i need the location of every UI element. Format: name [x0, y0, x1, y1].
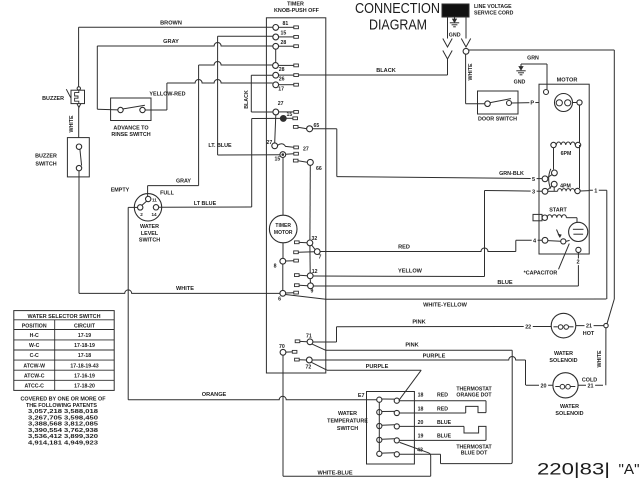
wire PURPLE (timer 72 to COLD solenoid 20) — [312, 354, 525, 386]
svg-text:THERMOSTAT: THERMOSTAT — [456, 444, 492, 450]
svg-text:19: 19 — [418, 433, 424, 439]
svg-text:22: 22 — [525, 325, 531, 331]
svg-text:28: 28 — [279, 67, 285, 73]
svg-text:RINSE SWITCH: RINSE SWITCH — [111, 132, 150, 138]
svg-text:17-16-19: 17-16-19 — [74, 373, 95, 379]
svg-text:LT. BLUE: LT. BLUE — [208, 143, 232, 149]
svg-text:BLACK: BLACK — [244, 90, 250, 109]
svg-text:17-18: 17-18 — [78, 353, 91, 359]
svg-text:SWITCH: SWITCH — [139, 238, 160, 244]
svg-text:BLUE: BLUE — [497, 280, 512, 286]
svg-text:6PM: 6PM — [561, 151, 572, 157]
svg-text:LINE VOLTAGE: LINE VOLTAGE — [474, 4, 512, 10]
svg-text:P: P — [530, 101, 534, 107]
svg-text:SOLENOID: SOLENOID — [555, 411, 583, 417]
wire 18 RED (thermostat to pole2) — [399, 406, 486, 413]
water solenoid HOT — [549, 313, 603, 363]
svg-text:CIRCUIT: CIRCUIT — [74, 323, 96, 329]
wire ORANGE (water level 2 to temp switch E7) — [128, 207, 376, 399]
svg-text:2: 2 — [577, 260, 580, 266]
svg-text:C-C: C-C — [30, 353, 39, 359]
svg-text:21: 21 — [586, 324, 592, 330]
svg-text:3,388,568 3,812,085: 3,388,568 3,812,085 — [28, 422, 98, 428]
wire: left line conductor with spade disconnect — [443, 17, 452, 75]
svg-text:SWITCH: SWITCH — [35, 162, 56, 168]
svg-text:15: 15 — [275, 157, 281, 163]
svg-text:81: 81 — [283, 21, 289, 27]
svg-text:DIAGRAM: DIAGRAM — [369, 17, 427, 34]
svg-text:START: START — [549, 208, 567, 214]
svg-text:WHITE: WHITE — [597, 350, 603, 368]
table: water selector switch — [14, 311, 114, 391]
title CONNECTION DIAGRAM — [355, 0, 440, 34]
svg-text:WHITE: WHITE — [468, 63, 474, 81]
svg-text:4PM: 4PM — [560, 183, 571, 189]
svg-text:DOOR SWITCH: DOOR SWITCH — [478, 117, 517, 123]
svg-text:7: 7 — [319, 255, 322, 261]
buzzer switch — [35, 138, 89, 177]
svg-text:RED: RED — [398, 244, 410, 250]
svg-text:GND: GND — [514, 80, 526, 86]
timer contact 9 — [295, 279, 314, 295]
svg-text:TIMER: TIMER — [275, 223, 291, 229]
svg-text:YELLOW: YELLOW — [398, 268, 423, 274]
svg-text:3,390,554 3,762,938: 3,390,554 3,762,938 — [28, 428, 98, 434]
svg-text:E7: E7 — [358, 393, 365, 399]
svg-text:PURPLE: PURPLE — [366, 364, 389, 370]
svg-text:32: 32 — [312, 236, 318, 242]
svg-text:1: 1 — [594, 188, 597, 194]
svg-text:PINK: PINK — [412, 319, 425, 325]
node: connector at HOT 21 — [604, 323, 608, 327]
water temperature switch box — [327, 392, 414, 465]
svg-text:COVERED BY ONE OR MORE OF: COVERED BY ONE OR MORE OF — [21, 397, 106, 403]
svg-text:ORANGE: ORANGE — [202, 392, 227, 398]
svg-text:WHITE: WHITE — [176, 286, 194, 292]
motor terminal 5 — [542, 176, 548, 182]
motor ground terminal — [544, 90, 549, 95]
svg-text:POSITION: POSITION — [22, 323, 47, 329]
wire door switch to motor P — [512, 100, 540, 107]
svg-text:220|83|: 220|83| — [537, 461, 610, 479]
svg-text:HOT: HOT — [583, 331, 595, 337]
svg-text:EMPTY: EMPTY — [111, 188, 130, 194]
motor terminal 4 and start switch — [542, 230, 570, 244]
svg-text:BLUE: BLUE — [437, 433, 452, 439]
svg-text:17-18-19-43: 17-18-19-43 — [70, 363, 98, 369]
timer contact 28 — [273, 40, 299, 49]
svg-text:RED: RED — [437, 393, 448, 399]
svg-text:WATER: WATER — [560, 404, 579, 410]
svg-text:14: 14 — [151, 212, 157, 217]
timer contact 65 — [293, 123, 319, 132]
svg-text:FULL: FULL — [160, 191, 174, 197]
wire PINK (timer 71 arm to thermostat loop) — [312, 342, 512, 350]
svg-text:27: 27 — [278, 101, 284, 107]
wire RED (timer 7 to motor 4) — [320, 238, 542, 252]
water solenoid COLD — [526, 373, 603, 417]
timer contact 6 — [278, 290, 298, 302]
timer contact 72 — [295, 357, 313, 370]
svg-text:WATER: WATER — [338, 411, 357, 417]
wire motor 1 to white riser — [580, 187, 607, 299]
capacitor / start relay circle — [569, 222, 588, 241]
svg-text:SWITCH: SWITCH — [337, 426, 358, 432]
svg-text:21: 21 — [588, 383, 594, 389]
svg-text:*CAPACITOR: *CAPACITOR — [524, 270, 558, 276]
svg-text:28: 28 — [281, 40, 287, 46]
svg-text:12: 12 — [312, 269, 318, 275]
timer contact 17 — [273, 82, 299, 93]
svg-text:27: 27 — [303, 146, 309, 152]
wire white line conductor to right edge and down to water valve — [469, 50, 614, 324]
svg-text:WHITE-BLUE: WHITE-BLUE — [317, 471, 352, 477]
svg-text:26: 26 — [279, 76, 285, 82]
svg-text:ATCW-C: ATCW-C — [24, 373, 45, 379]
wire BLUE (timer 9 to motor 2) — [313, 280, 578, 286]
svg-text:3,267,705 3,598,450: 3,267,705 3,598,450 — [28, 415, 98, 421]
wire 43 (pole5 to pink loop) — [399, 350, 512, 463]
svg-text:MOTOR: MOTOR — [274, 230, 293, 236]
svg-text:"A": "A" — [619, 462, 640, 478]
wire YELLOW-RED (rinse switch to timer 17) — [145, 80, 273, 111]
svg-text:2: 2 — [140, 212, 143, 217]
svg-text:18: 18 — [418, 393, 424, 399]
svg-text:3,536,412 3,899,320: 3,536,412 3,899,320 — [28, 434, 98, 440]
svg-text:W-C: W-C — [29, 343, 40, 349]
svg-text:66: 66 — [316, 166, 322, 172]
timer contact 27b — [267, 140, 309, 152]
svg-text:4,914,181 4,949,923: 4,914,181 4,949,923 — [28, 440, 98, 446]
timer contact 15c — [275, 152, 299, 163]
svg-text:20: 20 — [418, 420, 424, 426]
label LINE VOLTAGE SERVICE CORD — [474, 4, 514, 16]
wire timer 65 to GRN-BLK riser — [313, 129, 337, 177]
timer contact 15 — [273, 31, 299, 40]
svg-text:WATER: WATER — [554, 351, 573, 357]
svg-text:17-18-20: 17-18-20 — [74, 383, 95, 389]
timer contact 26 — [273, 72, 299, 82]
wire PINK (timer 71 to HOT solenoid 22) — [313, 319, 551, 342]
wire WHITE (HOT 21 to COLD 21) — [597, 328, 606, 385]
svg-text:MOTOR: MOTOR — [557, 78, 578, 84]
timer contact 12 — [295, 246, 318, 279]
label *CAPACITOR — [524, 244, 570, 277]
wire GRN and chassis ground — [514, 56, 547, 90]
svg-text:GRN-BLK: GRN-BLK — [499, 171, 524, 177]
svg-text:ATCW-W: ATCW-W — [23, 363, 45, 369]
svg-text:17-18-19: 17-18-19 — [74, 343, 95, 349]
svg-text:71: 71 — [306, 334, 312, 340]
timer contact 66 — [293, 159, 321, 172]
timer contact 71 — [295, 334, 313, 345]
timer box — [266, 2, 325, 373]
wire WHITE (connector to door switch) — [466, 54, 485, 103]
wire GRAY (timer 28b to water level switch FULL) — [148, 62, 273, 197]
timer contact 70 — [279, 344, 297, 355]
timer internal link 8-6 — [282, 264, 284, 290]
svg-text:8: 8 — [274, 264, 277, 270]
wire WHITE-YELLOW (timer 6 to motor 1) — [286, 295, 607, 309]
wire 19 BLUE (thermostat to pole4) — [399, 433, 486, 440]
svg-text:ADVANCE TO: ADVANCE TO — [113, 125, 148, 131]
temp switch pole 5 — [377, 451, 400, 457]
wire buzzer to buzzer switch — [69, 107, 79, 137]
wire 18 (pole1 to orange-dot thermostat) — [399, 393, 486, 413]
timer contact 28b — [273, 63, 299, 73]
wire YELLOW (timer 12 to motor 3) — [313, 268, 484, 276]
thermostat orange dot labels — [456, 386, 492, 398]
svg-text:SERVICE CORD: SERVICE CORD — [474, 11, 514, 17]
svg-text:BUZZER: BUZZER — [42, 96, 64, 102]
svg-text:LT BLUE: LT BLUE — [194, 201, 217, 207]
wire LT BLUE (water level 14 to timer 15b) — [159, 118, 281, 207]
svg-text:17: 17 — [278, 86, 284, 92]
wire GRAY (rinse switch to timer 28) — [97, 39, 272, 109]
svg-text:WATER: WATER — [140, 224, 159, 230]
svg-text:TIMER: TIMER — [287, 2, 304, 8]
svg-text:5: 5 — [532, 177, 535, 183]
wire GRN-BLK (timer 65 to motor 5) — [337, 171, 542, 183]
svg-text:GRAY: GRAY — [176, 179, 191, 185]
svg-text:18: 18 — [418, 407, 424, 413]
motor terminal to 6PM — [573, 100, 583, 142]
svg-text:YELLOW-RED: YELLOW-RED — [149, 91, 185, 97]
motor terminal 2 to BLUE — [575, 247, 581, 286]
svg-text:70: 70 — [279, 344, 285, 350]
svg-text:BLUE DOT: BLUE DOT — [461, 451, 488, 457]
ground symbol under plug — [449, 17, 461, 39]
svg-text:BUZZER: BUZZER — [35, 154, 57, 160]
svg-text:17-19: 17-19 — [78, 333, 91, 339]
svg-text:BLUE: BLUE — [437, 420, 452, 426]
timer contact 27 — [273, 101, 299, 115]
timer contact 8 — [274, 258, 299, 269]
timer internal link 28-28 — [275, 49, 277, 62]
svg-text:WATER SELECTOR SWITCH: WATER SELECTOR SWITCH — [28, 314, 101, 320]
wire BLACK (plug to timer 26) — [299, 68, 448, 75]
svg-text:RED: RED — [437, 407, 448, 413]
start winding — [533, 208, 577, 223]
motor terminal 3 — [542, 188, 548, 194]
temp switch pole 1 — [377, 397, 400, 403]
advance to rinse switch — [97, 98, 151, 138]
wire 20 BLUE (pole3 to blue-dot thermostat) — [399, 420, 486, 441]
timer motor — [269, 158, 297, 259]
svg-text:TEMPERATURE: TEMPERATURE — [327, 419, 368, 425]
svg-text:ORANGE DOT: ORANGE DOT — [456, 393, 492, 399]
svg-text:72: 72 — [306, 365, 312, 371]
svg-text:3,057,218 3,588,018: 3,057,218 3,588,018 — [28, 409, 98, 415]
timer contact 7 with arm from 32 — [294, 245, 322, 260]
wire timer 66-32 link — [309, 165, 311, 240]
timer contact 81 — [273, 21, 299, 30]
temp switch pole 3 — [377, 423, 400, 429]
wire YELLOW riser to motor 3 — [485, 188, 543, 276]
svg-text:WHITE: WHITE — [69, 115, 75, 133]
svg-text:CONNECTION: CONNECTION — [355, 0, 440, 17]
wire WHITE-BLUE (timer 70 to temp switch arm) — [283, 355, 431, 476]
svg-text:THERMOSTAT: THERMOSTAT — [456, 386, 492, 392]
svg-text:SOLENOID: SOLENOID — [549, 358, 577, 364]
svg-text:COLD: COLD — [582, 377, 597, 383]
plug: line voltage service cord — [442, 4, 469, 17]
timer contact 32 — [295, 236, 318, 246]
svg-text:GRN: GRN — [527, 56, 539, 62]
temp switch pole 2 — [377, 410, 400, 416]
temp switch pole 4 — [377, 437, 400, 443]
svg-text:15: 15 — [287, 112, 293, 118]
svg-text:11: 11 — [152, 197, 157, 202]
timer internal link 27-27 — [275, 115, 276, 143]
svg-text:PURPLE: PURPLE — [423, 354, 446, 360]
svg-text:LEVEL: LEVEL — [141, 231, 159, 237]
svg-text:THE FOLLOWING PATENTS: THE FOLLOWING PATENTS — [26, 403, 98, 409]
svg-text:WHITE-YELLOW: WHITE-YELLOW — [423, 302, 468, 308]
svg-text:20: 20 — [541, 383, 547, 389]
svg-text:GND: GND — [449, 33, 461, 39]
thermostat blue dot labels — [456, 444, 492, 456]
svg-text:PINK: PINK — [405, 342, 418, 348]
svg-text:KNOB-PUSH OFF: KNOB-PUSH OFF — [274, 8, 320, 14]
door switch — [478, 91, 519, 123]
wire BLACK internal 26-27 — [244, 75, 273, 112]
wire WHITE (buzzer switch to timer 6) — [79, 171, 280, 294]
wire LT. BLUE (timer 15a to timer 15c) — [208, 36, 280, 155]
governor switch — [548, 148, 558, 191]
svg-text:H-C: H-C — [30, 333, 39, 339]
svg-text:65: 65 — [314, 123, 320, 129]
svg-text:27: 27 — [267, 140, 273, 146]
wire BROWN (buzzer to timer 81) — [79, 20, 273, 86]
svg-text:BLACK: BLACK — [376, 68, 396, 74]
patents text — [21, 397, 106, 447]
wire PURPLE (timer 72 arm to temp switch) — [312, 362, 422, 400]
winding 4PM — [548, 145, 580, 194]
timer contact 15b — [280, 112, 297, 121]
svg-text:ATCC-C: ATCC-C — [24, 383, 44, 389]
winding 6PM — [551, 142, 581, 157]
water level switch — [111, 188, 175, 244]
svg-text:15: 15 — [281, 31, 287, 37]
buzzer — [42, 87, 84, 108]
svg-text:9: 9 — [311, 289, 314, 295]
svg-text:3: 3 — [532, 189, 535, 195]
motor main winding circle — [555, 94, 573, 112]
svg-text:BROWN: BROWN — [160, 20, 182, 26]
svg-text:GRAY: GRAY — [163, 39, 179, 45]
svg-text:6: 6 — [278, 297, 281, 303]
wire: right line conductor with spade and connector — [461, 17, 470, 54]
